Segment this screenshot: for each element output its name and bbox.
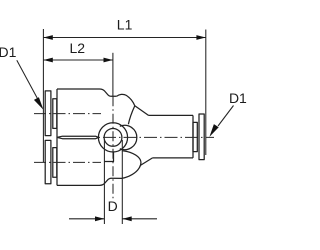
upper shoulder arc to cusp (117, 94, 135, 105)
D extension line right (121, 140, 123, 224)
lower crotch shelf, chamfer, body bottom edge (57, 178, 122, 185)
right arm bottom edge (153, 157, 194, 159)
L1 dimension line (43, 37, 205, 39)
D dimension line right tail (122, 218, 157, 220)
center junction main circle (98, 123, 127, 152)
arrowheads (34, 35, 219, 221)
svg-text:D: D (108, 198, 118, 214)
centerline right port (98, 136, 214, 138)
D right arrow (122, 216, 131, 221)
leader line right D1 (218, 106, 234, 127)
inner connector cusp to boss (128, 106, 134, 125)
L1 left arrow (43, 35, 52, 40)
L1 right arrow (196, 35, 205, 40)
D extension line left (103, 140, 105, 224)
right arm top edge (149, 114, 194, 116)
centerline upper-left port (34, 96, 214, 201)
vertical centerline through junction (112, 96, 114, 201)
svg-text:D1: D1 (229, 90, 247, 106)
D dimension line left tail (69, 218, 104, 220)
centerline lower-left port (34, 161, 101, 163)
right port ring2 (neck) (193, 122, 197, 151)
leader arrowhead right D1 (209, 124, 218, 137)
lower diagonal from arm (140, 158, 153, 166)
leader arrowhead left D1 (34, 97, 44, 110)
extension line right port face (205, 30, 207, 156)
lower-left port ring1 (release ring) (45, 140, 51, 183)
upper diagonal to right arm top (135, 106, 149, 116)
right crescent boss arc (120, 125, 137, 149)
L2 right arrow (104, 58, 113, 63)
lower boss lobe (122, 151, 141, 179)
right arm right face (192, 115, 194, 157)
svg-text:L2: L2 (70, 40, 86, 56)
svg-text:L1: L1 (117, 17, 133, 33)
svg-text:D1: D1 (0, 44, 17, 60)
D left arrow (95, 216, 104, 221)
step below circle (104, 152, 113, 162)
L2 left arrow (43, 58, 52, 63)
slot between the two left ports (57, 136, 99, 137)
right port ring1 (release ring) (199, 114, 204, 160)
body top edge with chamfer (57, 89, 117, 96)
lower-left port ring2 (neck) (53, 148, 57, 178)
extension line L2 right / junction center (112, 53, 114, 97)
extension line left face (42, 29, 44, 162)
leader line left D1 (17, 60, 38, 99)
body left face (56, 89, 58, 185)
dimension + extension lines (17, 29, 234, 224)
center junction bore circle (104, 129, 122, 147)
upper-left port ring2 (neck) (53, 99, 57, 129)
upper-left port ring1 (release ring) (45, 91, 51, 136)
L2 dimension line (43, 59, 113, 61)
